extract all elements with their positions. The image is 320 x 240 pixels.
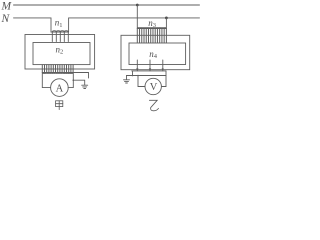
wire n2 left end down to ammeter xyxy=(42,73,50,88)
iron core of transformer 甲 (inner rectangle) xyxy=(33,43,90,65)
wire voltmeter right lead up to n4 right end xyxy=(161,71,166,87)
iron core of transformer 乙 (inner rectangle) xyxy=(129,43,186,65)
wire n2 baseline right extension with stub xyxy=(73,73,88,79)
junction blob on ground rail at voltmeter lead xyxy=(137,75,139,77)
svg-text:n1: n1 xyxy=(55,18,63,29)
ground symbol of transformer 甲 xyxy=(82,85,88,88)
iron core of transformer 甲 (outer rectangle) xyxy=(25,35,95,70)
wire branch to ground of transformer 甲 xyxy=(73,80,84,85)
wire from M dot down to n3 xyxy=(136,5,138,29)
junction blob at ammeter right lead ground branch xyxy=(73,79,75,81)
wire ammeter right to n2 right end xyxy=(68,73,73,88)
ground symbol of transformer 乙 xyxy=(124,80,130,83)
wire voltmeter left lead xyxy=(138,76,145,87)
svg-text:n4: n4 xyxy=(149,49,158,60)
winding n2 (secondary of transformer 甲, many turns) xyxy=(42,65,73,74)
iron core of transformer 乙 (outer rectangle) xyxy=(121,35,190,69)
label 乙 (hand-drawn CJK) xyxy=(149,100,158,111)
wire N line right segment xyxy=(69,18,200,32)
junction blob on ground rail at n4 left lead xyxy=(132,75,134,77)
svg-text:n3: n3 xyxy=(148,18,156,29)
svg-text:A: A xyxy=(56,83,64,94)
junction dot on M line xyxy=(136,4,139,7)
wire n4 left end down to ground rail xyxy=(132,71,134,76)
wire M line xyxy=(14,4,200,6)
wire N line left segment xyxy=(14,18,52,32)
winding n1 (primary of transformer 甲, 3-4 turns) xyxy=(51,31,69,42)
junction dot on N line xyxy=(165,17,168,20)
svg-text:N: N xyxy=(1,13,11,25)
voltmeter V1 circle xyxy=(145,78,161,94)
svg-text:M: M xyxy=(1,1,13,13)
wire ground stem of transformer 乙 xyxy=(126,76,128,80)
svg-text:n2: n2 xyxy=(56,44,64,55)
ammeter A1 circle xyxy=(51,79,69,97)
wire from N dot down to n3 xyxy=(165,18,167,29)
label 甲 (hand-drawn CJK) xyxy=(56,101,63,110)
wire ground rail of transformer 乙 xyxy=(127,75,167,77)
winding n3 (primary of transformer 乙, many turns) xyxy=(137,27,166,42)
svg-text:V: V xyxy=(150,82,158,93)
winding n4 (secondary of transformer 乙, 3 turns) xyxy=(132,60,166,71)
